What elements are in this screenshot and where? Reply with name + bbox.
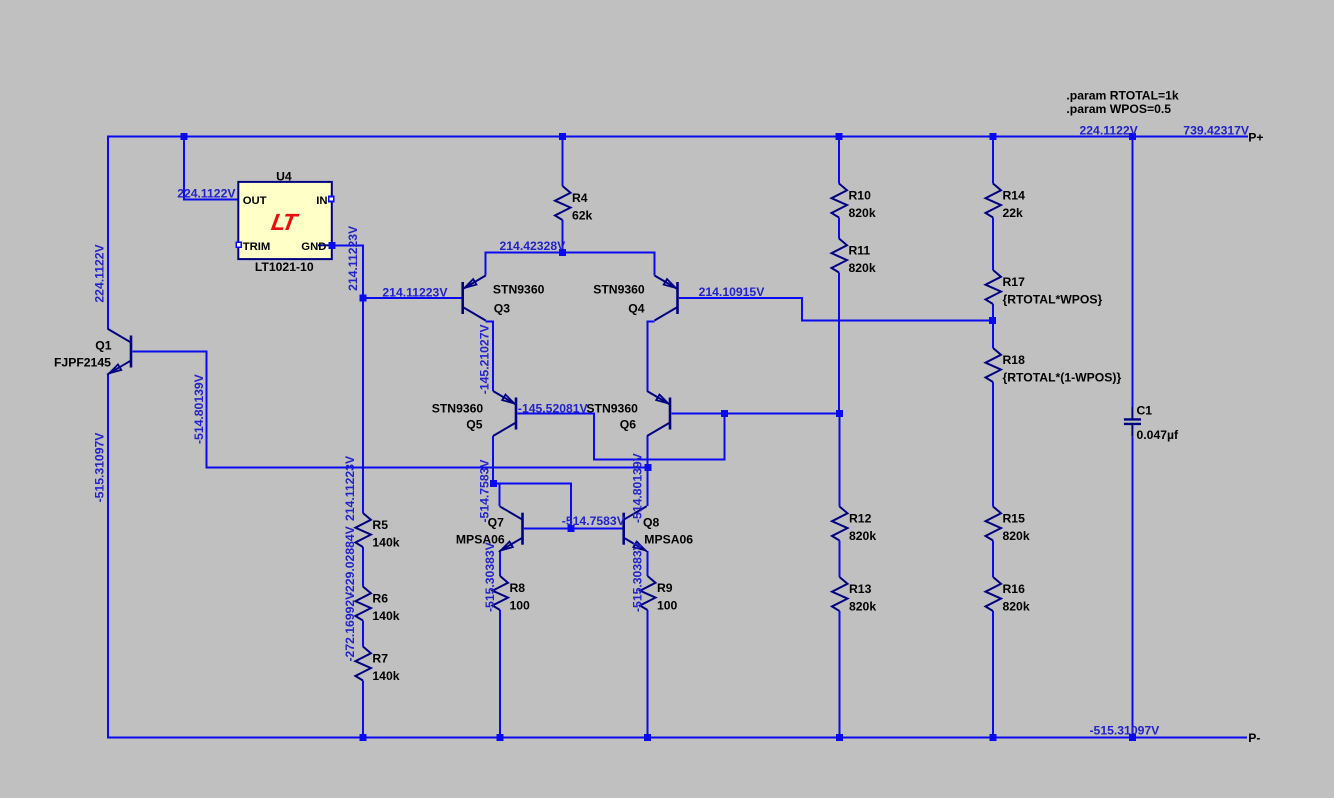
wire top rail to C1 (1131, 137, 1133, 408)
svg-text:R4: R4 (572, 191, 588, 205)
transistor Q6 (647, 391, 670, 436)
svg-text:FJPF2145: FJPF2145 (54, 355, 111, 369)
junction top rail / C1 (1129, 133, 1136, 140)
resistor R17 (986, 270, 1103, 307)
transistor Q7 (500, 506, 523, 551)
svg-text:R9: R9 (657, 581, 673, 595)
wire Q8 emitter to R9 (647, 551, 649, 576)
svg-text:STN9360: STN9360 (593, 283, 645, 297)
svg-text:R6: R6 (372, 592, 388, 606)
svg-text:.param WPOS=0.5: .param WPOS=0.5 (1066, 102, 1171, 116)
resistor R16 (986, 577, 1030, 614)
resistor R7 (355, 647, 399, 684)
wire R11 to mid node (838, 273, 840, 414)
wire R4 bottom lead (562, 220, 564, 253)
resistor R10 (832, 184, 876, 221)
junction R17-R18 node (989, 317, 996, 324)
wire Q4 collector to Q6 emitter (648, 322, 655, 392)
svg-text:-514.80139V: -514.80139V (192, 373, 206, 444)
wire R12-R13 link (839, 541, 841, 578)
resistor R4 (555, 186, 593, 223)
svg-text:OUT: OUT (243, 195, 267, 207)
wire P+ top rail (107, 136, 1248, 138)
svg-text:820k: 820k (849, 206, 876, 220)
wire left drop to Q1 collector (107, 137, 109, 330)
junction bottom rail / R13 (836, 734, 843, 741)
junction top rail / R14 (990, 133, 997, 140)
svg-text:R18: R18 (1003, 353, 1026, 367)
wire top rail to R10 (838, 137, 840, 184)
wire Q3 emitter to R4 node (486, 253, 655, 276)
wire R9 to bottom rail (647, 610, 649, 737)
svg-text:820k: 820k (849, 529, 876, 543)
svg-text:-145.52081V: -145.52081V (518, 401, 589, 415)
svg-text:{RTOTAL*(1-WPOS)}: {RTOTAL*(1-WPOS)} (1003, 371, 1122, 385)
svg-text:{RTOTAL*WPOS}: {RTOTAL*WPOS} (1003, 293, 1103, 307)
svg-text:GND: GND (301, 241, 326, 253)
svg-text:MPSA06: MPSA06 (644, 533, 693, 547)
svg-text:TRIM: TRIM (243, 241, 271, 253)
svg-text:-515.31097V: -515.31097V (93, 432, 107, 503)
resistor R6 (355, 587, 399, 624)
svg-text:Q8: Q8 (643, 516, 659, 530)
svg-text:Q3: Q3 (494, 302, 510, 316)
svg-text:R14: R14 (1003, 189, 1026, 203)
resistor R15 (986, 507, 1030, 544)
junction top rail / U4 OUT (181, 133, 188, 140)
svg-text:820k: 820k (1003, 529, 1030, 543)
capacitor C1 (1124, 407, 1141, 437)
wire Q3 collector to Q5 emitter (486, 322, 493, 392)
wire Q3 base wire (363, 297, 462, 299)
svg-text:MPSA06: MPSA06 (456, 533, 505, 547)
svg-text:C1: C1 (1137, 404, 1153, 418)
svg-text:100: 100 (510, 599, 531, 613)
junction R4 bottom node (559, 249, 566, 256)
transistor Q1 (108, 329, 131, 374)
wire R4 top lead (562, 137, 564, 187)
resistor R8 (493, 576, 531, 613)
wire R14-R17 link (992, 218, 994, 271)
wire R13 to bottom rail (839, 611, 841, 737)
wire top rail to R14 (992, 137, 994, 184)
wire R18 to R15 (992, 382, 994, 507)
svg-text:.param RTOTAL=1k: .param RTOTAL=1k (1066, 89, 1179, 103)
svg-text:R11: R11 (849, 244, 871, 258)
svg-text:-514.7583V: -514.7583V (562, 514, 626, 528)
junction Q3 base node (359, 295, 366, 302)
wire P- bottom rail (107, 736, 1247, 738)
svg-text:Q5: Q5 (466, 418, 482, 432)
junction R11-R12 node (836, 410, 843, 417)
svg-text:STN9360: STN9360 (432, 401, 484, 415)
wire Q7 collector stub (499, 483, 501, 506)
transistor Q3 (463, 276, 486, 321)
wire Q5 collector to Q7/Q8 bases (494, 483, 571, 528)
svg-text:214.10915V: 214.10915V (699, 285, 766, 299)
svg-text:-514.7583V: -514.7583V (478, 459, 492, 523)
transistor Q5 (493, 391, 516, 436)
svg-text:U4: U4 (276, 169, 292, 183)
junction base tie node (567, 525, 574, 532)
transistor Q8 (624, 506, 647, 551)
junction bottom rail / R9 (644, 734, 651, 741)
svg-text:820k: 820k (849, 261, 876, 275)
svg-text:140k: 140k (372, 669, 399, 683)
op-amp/reference U4 LT1021-10 (238, 169, 331, 273)
svg-text:-145.21027V: -145.21027V (478, 324, 492, 395)
svg-text:140k: 140k (372, 536, 399, 550)
wire Q1 base bus (132, 352, 648, 468)
wire R6-R7 link (362, 621, 364, 647)
svg-text:STN9360: STN9360 (493, 283, 545, 297)
wire Q4 base to R17-R18 node (679, 298, 993, 320)
wire mid node to R12 (839, 414, 841, 507)
svg-text:214.42328V: 214.42328V (500, 239, 567, 253)
svg-text:-272.16992V: -272.16992V (343, 591, 357, 662)
svg-text:224.1122V: 224.1122V (177, 186, 236, 200)
wire Q6 collector to Q8 collector (647, 436, 649, 506)
junction bottom rail / R8 (497, 734, 504, 741)
svg-text:STN9360: STN9360 (586, 401, 638, 415)
svg-text:-515.30383V: -515.30383V (483, 541, 497, 612)
wire R5-R6 link (362, 547, 364, 587)
junction top rail / R4 (559, 133, 566, 140)
junction bottom rail / R16 (990, 734, 997, 741)
resistor R5 (355, 513, 399, 550)
junction U4 GND pin (328, 242, 335, 249)
pin IN (open square) (329, 197, 334, 202)
svg-text:214.11223V: 214.11223V (343, 455, 357, 521)
svg-text:R16: R16 (1003, 582, 1026, 596)
wire U4 GND to R5 column (330, 245, 363, 513)
wire top rail to U4 OUT (184, 137, 237, 200)
resistor R12 (832, 507, 876, 544)
svg-text:R12: R12 (849, 512, 872, 526)
junction bus end node (645, 464, 652, 471)
svg-text:R17: R17 (1003, 275, 1026, 289)
svg-text:140k: 140k (372, 609, 399, 623)
svg-text:224.1122V: 224.1122V (1080, 123, 1139, 137)
wire Q7 emitter to R8 (499, 551, 501, 576)
svg-text:R10: R10 (849, 189, 872, 203)
junction bottom rail / R7 (359, 734, 366, 741)
wire R16 to bottom rail (992, 611, 994, 737)
resistor R9 (640, 576, 678, 613)
junction bottom rail / C1 (1129, 734, 1136, 741)
transistor Q4 (655, 276, 678, 321)
resistor R11 (832, 239, 876, 276)
svg-text:820k: 820k (1003, 600, 1030, 614)
svg-text:820k: 820k (849, 600, 876, 614)
svg-text:Q1: Q1 (95, 339, 111, 353)
wire R8 to bottom rail (499, 610, 501, 737)
wire R15-R16 link (992, 541, 994, 578)
svg-text:100: 100 (657, 599, 678, 613)
svg-text:-515.31097V: -515.31097V (1090, 723, 1161, 737)
svg-text:-229.02884V: -229.02884V (343, 525, 357, 596)
junction top rail / R10 (836, 133, 843, 140)
svg-text:739.42317V: 739.42317V (1183, 123, 1250, 137)
wire C1 to bottom rail (1131, 437, 1133, 738)
svg-text:-514.80139V: -514.80139V (631, 452, 645, 523)
svg-text:R13: R13 (849, 582, 872, 596)
wire Q5 base to Q6 base (517, 414, 724, 460)
resistor R18 (986, 348, 1122, 385)
resistor R14 (986, 184, 1026, 221)
wire Q5 collector drop (492, 436, 494, 483)
svg-text:Q6: Q6 (620, 418, 636, 432)
svg-text:P-: P- (1248, 731, 1260, 745)
svg-text:R8: R8 (510, 581, 526, 595)
svg-text:224.1122V: 224.1122V (93, 243, 107, 302)
wire R10-R11 link (838, 218, 840, 239)
svg-text:P+: P+ (1248, 131, 1263, 145)
junction Q5 collector node (490, 480, 497, 487)
wire Q1 emitter to bottom rail (107, 374, 109, 738)
svg-text:R5: R5 (372, 518, 388, 532)
resistor R13 (832, 577, 876, 614)
wire node to R18 (992, 320, 994, 348)
wire Q7 base to Q8 base (524, 528, 623, 530)
svg-text:IN: IN (316, 195, 327, 207)
svg-text:-515.30383V: -515.30383V (631, 541, 645, 612)
wire R7 to bottom rail (362, 681, 364, 738)
svg-text:62k: 62k (572, 209, 593, 223)
svg-text:R7: R7 (372, 652, 388, 666)
svg-text:R15: R15 (1003, 512, 1026, 526)
junction Q6 base node (721, 410, 728, 417)
svg-text:22k: 22k (1003, 206, 1024, 220)
svg-text:LT1021-10: LT1021-10 (255, 260, 314, 274)
svg-text:Q4: Q4 (628, 302, 644, 316)
svg-text:214.11223V: 214.11223V (346, 225, 360, 291)
wire R17 to node (992, 304, 994, 320)
svg-text:0.047µf: 0.047µf (1137, 428, 1180, 442)
pin TRIM (open square) (236, 242, 241, 247)
wire Q6 base wire (671, 413, 839, 415)
svg-text:214.11223V: 214.11223V (382, 286, 448, 300)
